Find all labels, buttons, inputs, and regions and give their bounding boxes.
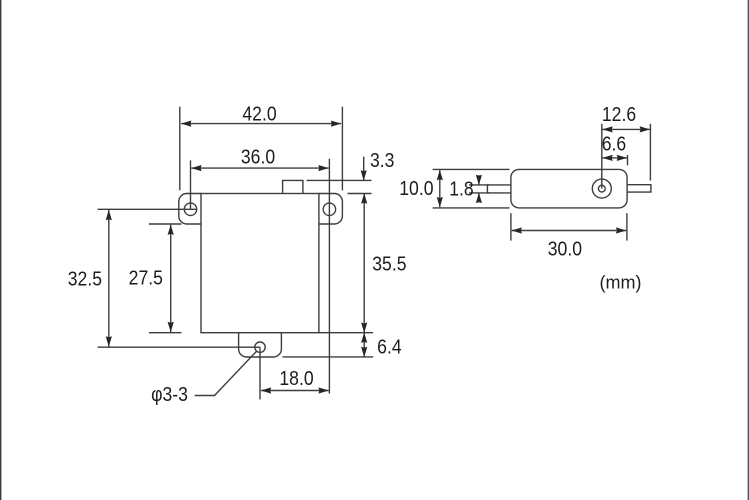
svg-text:1.8: 1.8: [449, 177, 473, 199]
svg-text:6.6: 6.6: [602, 132, 626, 154]
dim 1.8 arrow bottom: [478, 193, 480, 202]
svg-text:27.5: 27.5: [129, 266, 163, 288]
body front view: [201, 194, 319, 333]
dim 35.5 dimension line: [363, 194, 365, 333]
output shaft inner circle: [598, 185, 605, 192]
bottom mounting tab: [239, 333, 282, 357]
svg-text:(mm): (mm): [600, 273, 642, 293]
svg-text:6.4: 6.4: [377, 335, 401, 357]
dim 30.0 extension line left: [510, 213, 512, 240]
side view body: [511, 169, 627, 208]
dim 1.8 arrow top: [478, 175, 480, 185]
dim 30.0 extension line right: [626, 213, 628, 240]
dim 42.0 extension line left: [179, 107, 181, 191]
dim 32.5 extension line bottom: [98, 346, 260, 348]
output shaft outer circle: [592, 179, 611, 198]
dim 6.4 dimension line: [363, 333, 365, 357]
svg-text:10.0: 10.0: [399, 177, 433, 199]
bottom tab hole: [255, 342, 265, 352]
dim 32.5 extension line top: [98, 208, 197, 210]
dim 27.5 tick top: [149, 223, 182, 225]
dim 10.0 extension line top: [433, 168, 510, 170]
dim 42.0 dimension line: [181, 123, 341, 125]
right mounting ear: [319, 194, 343, 225]
dim 30.0 dimension line: [512, 230, 626, 232]
top boss tab: [283, 180, 303, 193]
svg-text:φ3-3: φ3-3: [151, 383, 188, 405]
svg-text:18.0: 18.0: [279, 367, 313, 389]
dim 36.0 extension line left: [190, 160, 192, 209]
dim 32.5 dimension line: [108, 210, 110, 347]
svg-text:42.0: 42.0: [242, 102, 276, 124]
svg-text:35.5: 35.5: [372, 253, 406, 275]
dim 10.0 extension line bottom: [433, 207, 510, 209]
dim 6.4 extension line bottom: [283, 356, 374, 358]
dim 10.0 dimension line: [439, 170, 441, 207]
svg-text:30.0: 30.0: [548, 237, 582, 259]
dim 3.3 arrow: [363, 157, 365, 181]
dim 6.6 dimension line: [603, 157, 627, 159]
left ear hole: [184, 203, 196, 215]
dim 27.5 dimension line: [170, 225, 172, 332]
dim 18.0 extension line left: [259, 347, 261, 399]
dim 18.0 dimension line: [261, 390, 329, 392]
dim 35.5 extension line bottom: [319, 332, 373, 334]
hole callout leader: [195, 351, 257, 396]
dim 36.0 dimension line: [191, 167, 328, 169]
svg-text:36.0: 36.0: [241, 146, 275, 168]
dim 3.3 extension line bottom: [348, 193, 372, 195]
svg-text:3.3: 3.3: [370, 149, 394, 171]
dim 27.5 tick bottom: [149, 332, 182, 334]
dim 12.6 extension line left: [601, 124, 603, 189]
dim 1.8 tick top: [469, 184, 490, 186]
dim 3.3 extension line top: [307, 179, 372, 181]
dim 1.8 tick bottom: [469, 192, 490, 194]
side view right shaft stub: [627, 185, 651, 192]
svg-text:32.5: 32.5: [68, 267, 102, 289]
dim 12.6 extension line right: [649, 124, 651, 181]
dim 6.6 extension line right: [627, 155, 629, 165]
dim 36.0 extension line right: [328, 159, 330, 394]
left mounting ear: [179, 194, 201, 225]
svg-text:12.6: 12.6: [602, 103, 636, 125]
side view left shaft stub: [487, 185, 511, 193]
dim 42.0 extension line right: [341, 107, 343, 191]
dim 12.6 dimension line: [603, 128, 650, 130]
right ear hole: [323, 203, 335, 215]
